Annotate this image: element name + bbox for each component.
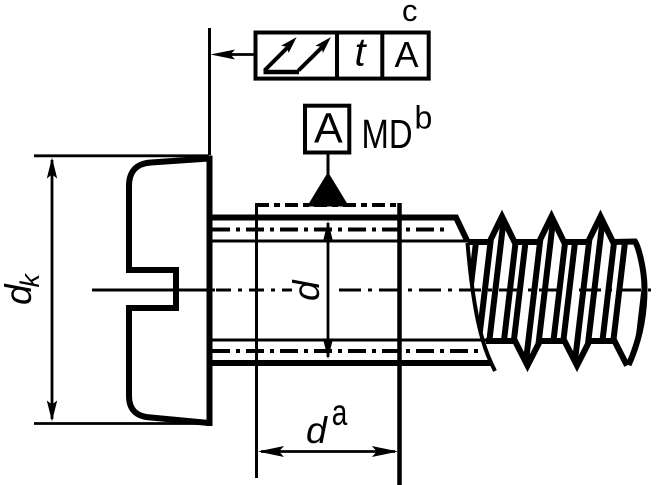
svg-text:k: k xyxy=(15,273,45,288)
svg-text:d: d xyxy=(306,409,328,451)
svg-text:MD: MD xyxy=(362,111,413,157)
svg-text:b: b xyxy=(415,100,433,136)
svg-text:d: d xyxy=(286,279,327,301)
svg-text:A: A xyxy=(314,105,343,153)
svg-text:t: t xyxy=(355,31,368,75)
svg-text:c: c xyxy=(402,0,418,28)
svg-text:a: a xyxy=(332,392,348,433)
svg-text:A: A xyxy=(395,34,419,75)
